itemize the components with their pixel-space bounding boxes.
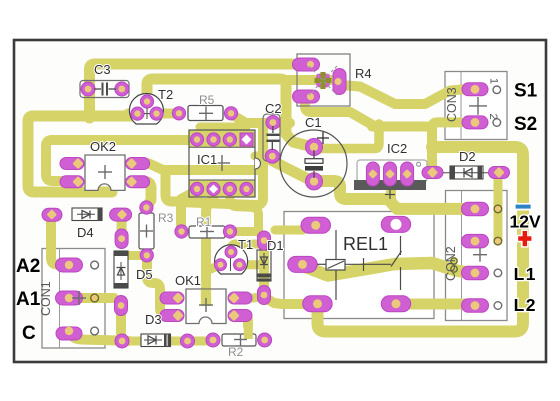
- svg-text:A1: A1: [16, 289, 41, 310]
- svg-text:D5: D5: [136, 267, 153, 282]
- svg-text:D1: D1: [267, 238, 284, 253]
- svg-text:REL1: REL1: [343, 234, 388, 254]
- svg-text:R3: R3: [158, 211, 174, 225]
- svg-text:R2: R2: [228, 345, 244, 359]
- svg-text:C: C: [22, 323, 36, 344]
- svg-text:IC2: IC2: [387, 141, 407, 156]
- svg-text:CON1: CON1: [39, 281, 53, 316]
- svg-text:CON2: CON2: [444, 246, 458, 281]
- svg-text:L1: L1: [514, 264, 537, 284]
- svg-text:C1: C1: [305, 115, 322, 130]
- svg-text:A2: A2: [16, 256, 40, 277]
- svg-text:OK2: OK2: [90, 139, 116, 154]
- svg-text:R1: R1: [196, 215, 212, 229]
- svg-text:D4: D4: [77, 225, 94, 240]
- svg-text:C3: C3: [94, 62, 111, 77]
- svg-text:R4: R4: [355, 66, 372, 81]
- svg-text:T1: T1: [238, 237, 253, 252]
- svg-text:IC1: IC1: [197, 152, 217, 167]
- svg-text:D2: D2: [459, 149, 476, 164]
- svg-text:12V: 12V: [510, 212, 541, 232]
- svg-text:OK1: OK1: [175, 273, 201, 288]
- svg-text:L2: L2: [514, 295, 537, 315]
- svg-text:S2: S2: [514, 114, 537, 135]
- svg-text:2: 2: [487, 114, 499, 120]
- svg-text:D3: D3: [145, 312, 162, 327]
- svg-text:S1: S1: [514, 81, 538, 102]
- svg-text:R5: R5: [199, 93, 215, 107]
- svg-text:CON3: CON3: [445, 87, 459, 122]
- svg-text:C2: C2: [265, 101, 282, 116]
- svg-text:T2: T2: [158, 87, 173, 102]
- svg-text:1: 1: [488, 78, 500, 84]
